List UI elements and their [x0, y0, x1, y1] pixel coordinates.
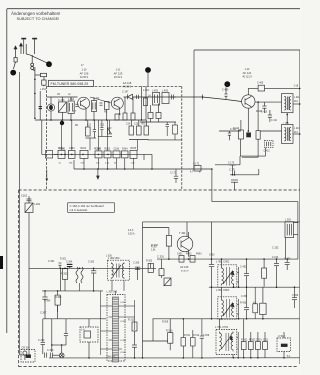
svg-text:U 301: U 301	[120, 302, 127, 304]
svg-text:40 60 9: 40 60 9	[181, 271, 189, 273]
svg-text:C 512: C 512	[278, 334, 285, 338]
svg-text:U 302: U 302	[120, 321, 127, 323]
svg-text:AF 125: AF 125	[180, 265, 189, 269]
svg-text:R 303: R 303	[146, 261, 153, 263]
svg-text:C 303: C 303	[88, 262, 95, 264]
svg-text:R164: R164	[122, 149, 128, 151]
svg-text:C 451: C 451	[240, 266, 247, 269]
svg-text:U 304: U 304	[120, 352, 127, 354]
svg-text:C 171: C 171	[229, 169, 236, 172]
svg-text:L 213: L 213	[294, 128, 300, 130]
svg-text:C15: C15	[134, 124, 139, 126]
svg-text:R161: R161	[58, 148, 64, 150]
svg-text:R165: R165	[131, 148, 137, 150]
svg-text:C 304: C 304	[44, 300, 51, 303]
svg-text:C 173: C 173	[228, 163, 235, 165]
svg-text:C 152: C 152	[272, 247, 279, 250]
svg-text:C 409: C 409	[257, 83, 264, 85]
svg-text:C14: C14	[126, 124, 131, 126]
svg-text:L 163: L 163	[68, 98, 75, 101]
svg-text:AF 121: AF 121	[243, 71, 252, 75]
svg-text:L 161: L 161	[40, 88, 47, 91]
svg-text:C 310: C 310	[38, 339, 45, 342]
svg-text:1-10: 1-10	[82, 69, 87, 72]
svg-text:R 302: R 302	[61, 273, 68, 276]
svg-text:C402: C402	[209, 255, 215, 257]
svg-text:C 163: C 163	[58, 99, 65, 102]
svg-text:4-6,3: 4-6,3	[128, 230, 134, 232]
svg-text:C 152: C 152	[272, 257, 279, 259]
svg-text:C 304: C 304	[66, 262, 73, 264]
svg-text:L 451 C451: L 451 C451	[216, 259, 230, 263]
svg-text:R 512: R 512	[193, 335, 200, 337]
svg-text:C 412: C 412	[230, 128, 237, 131]
svg-text:R403: R403	[196, 254, 202, 256]
svg-text:C401: C401	[177, 254, 183, 256]
svg-text:C 172: C 172	[193, 164, 200, 166]
svg-text:AF 106: AF 106	[80, 72, 89, 76]
svg-text:R 502: R 502	[249, 338, 256, 341]
svg-text:1-12: 1-12	[245, 68, 250, 71]
svg-text:L306 307: L306 307	[106, 356, 116, 358]
svg-text:AF 125: AF 125	[114, 72, 123, 76]
svg-text:L 401: L 401	[143, 89, 150, 92]
svg-text:40 121 9: 40 121 9	[242, 76, 252, 79]
svg-text:C 167: C 167	[122, 91, 129, 94]
svg-text:T 401: T 401	[179, 231, 186, 235]
svg-text:R 307: R 307	[151, 247, 158, 249]
svg-text:R 301: R 301	[60, 259, 67, 261]
svg-text:C162: C162	[21, 195, 28, 198]
svg-text:C12: C12	[100, 125, 105, 127]
svg-text:L162: L162	[35, 203, 41, 206]
svg-text:L 211: L 211	[294, 97, 300, 99]
svg-text:R 411: R 411	[256, 110, 263, 113]
svg-text:C 305: C 305	[133, 263, 140, 265]
svg-text:C 411: C 411	[271, 120, 278, 122]
svg-text:C 301: C 301	[157, 255, 164, 259]
svg-text:R 511: R 511	[184, 335, 191, 337]
svg-text:L 651 C651: L 651 C651	[216, 288, 230, 292]
svg-text:C 509: C 509	[203, 335, 210, 337]
svg-text:C511: C511	[263, 339, 269, 341]
svg-text:U 303: U 303	[120, 340, 127, 342]
svg-text:0,25 A: 0,25 A	[128, 233, 135, 236]
svg-text:R162: R162	[81, 148, 87, 150]
svg-text:C 309: C 309	[47, 349, 54, 352]
svg-text:L 201: L 201	[283, 123, 290, 126]
svg-text:L 303: L 303	[106, 256, 112, 258]
svg-text:C510: C510	[256, 339, 262, 341]
svg-text:R 509: R 509	[162, 322, 169, 324]
svg-text:1-18: 1-18	[294, 86, 299, 88]
svg-text:40 61 9: 40 61 9	[114, 76, 123, 79]
svg-text:C 412: C 412	[264, 151, 271, 153]
svg-text:L 203: L 203	[285, 220, 291, 222]
svg-text:L 305 306: L 305 306	[107, 291, 118, 294]
svg-text:C 405: C 405	[222, 89, 229, 92]
svg-text:R 305: R 305	[55, 296, 62, 299]
svg-text:C164: C164	[69, 148, 75, 150]
svg-text:R402: R402	[186, 254, 192, 256]
svg-text:CR 301: CR 301	[22, 346, 31, 349]
svg-text:L 403: L 403	[162, 90, 169, 93]
svg-text:C 455: C 455	[241, 296, 248, 298]
svg-text:FM-TUNER 580.098.29: FM-TUNER 580.098.29	[51, 82, 89, 86]
svg-text:40 60 9: 40 60 9	[123, 85, 132, 88]
svg-text:1-11: 1-11	[116, 69, 121, 72]
svg-text:L 402: L 402	[152, 90, 159, 93]
svg-text:R 501: R 501	[241, 338, 248, 341]
svg-text:C 307: C 307	[40, 312, 47, 315]
svg-text:R 510: R 510	[166, 330, 173, 333]
svg-text:C166: C166	[114, 149, 120, 151]
svg-text:SUBJECT TO CHANGE!: SUBJECT TO CHANGE!	[17, 16, 60, 21]
svg-text:C 301: C 301	[48, 260, 55, 263]
svg-text:40 60 9: 40 60 9	[80, 76, 89, 79]
svg-text:C 456: C 456	[292, 295, 299, 297]
svg-text:R 455: R 455	[240, 303, 247, 305]
svg-text:L 701 C701: L 701 C701	[215, 325, 229, 329]
svg-text:R 310: R 310	[128, 319, 135, 322]
svg-text:mit C bestückt: mit C bestückt	[70, 208, 88, 212]
svg-text:C 171: C 171	[170, 173, 177, 175]
